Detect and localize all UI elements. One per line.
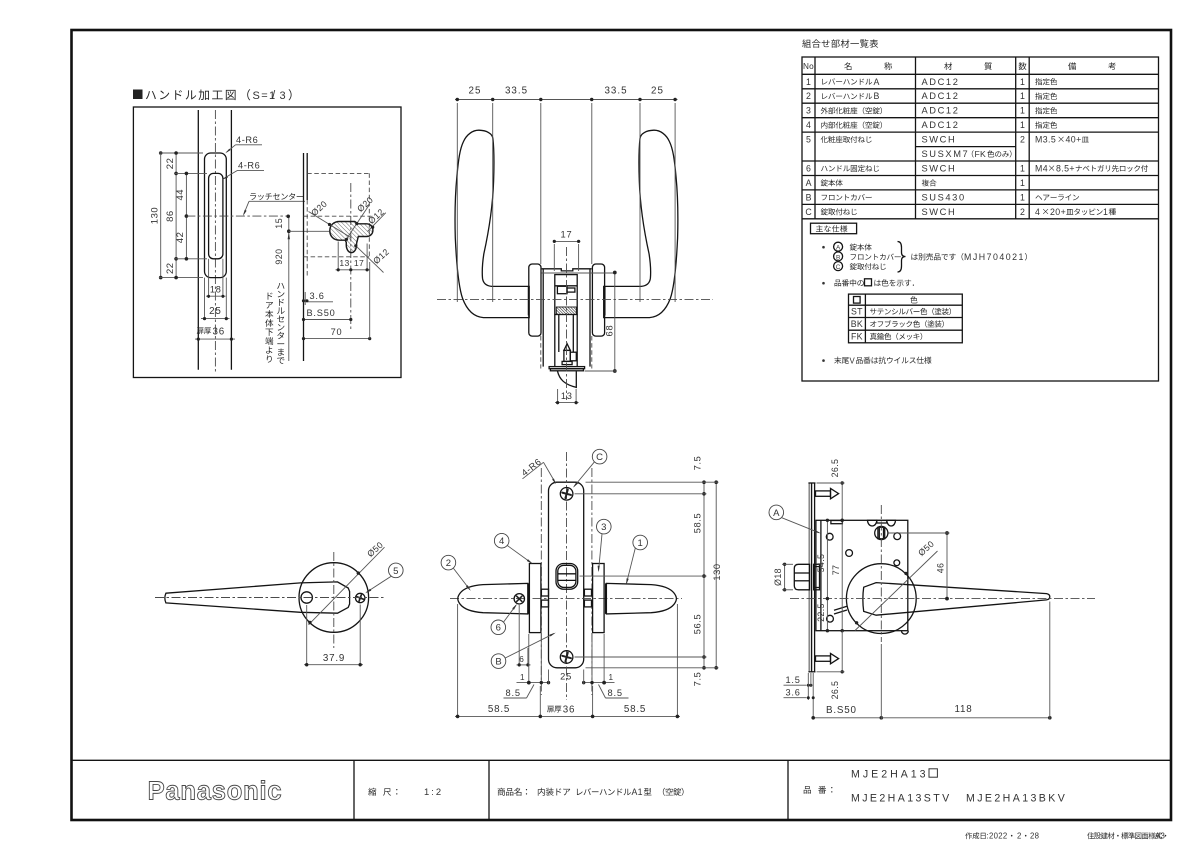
inner rose edge view (3)	[593, 564, 605, 633]
case rivets	[826, 533, 833, 540]
balloon C + leader	[592, 449, 607, 464]
dim 25 plate width	[548, 670, 550, 685]
svg-text:4: 4	[806, 120, 811, 130]
svg-text:1: 1	[520, 673, 525, 682]
latch tail in case	[814, 564, 820, 590]
svg-text:1: 1	[1020, 178, 1025, 188]
latch center label	[250, 193, 256, 199]
svg-text:MJE2HA13STV: MJE2HA13STV	[851, 793, 952, 805]
dim D18 latch	[784, 564, 786, 590]
dim 17 top view	[553, 240, 580, 242]
svg-text:4: 4	[1035, 207, 1040, 217]
hub posts left	[541, 589, 548, 596]
svg-text:SWCH: SWCH	[922, 163, 957, 173]
svg-text:118: 118	[954, 704, 972, 715]
svg-text:130: 130	[712, 563, 722, 580]
svg-text:36: 36	[213, 327, 226, 338]
svg-text:No: No	[803, 62, 814, 71]
brace	[898, 242, 906, 273]
hub reference line to 68 dim	[542, 272, 615, 274]
handle axis centerline	[450, 598, 682, 600]
extension lines right	[586, 481, 719, 483]
svg-text:17: 17	[561, 229, 573, 239]
svg-text:5: 5	[393, 566, 398, 577]
svg-text:Ø18: Ø18	[773, 568, 783, 586]
centerlines lock view	[790, 598, 1095, 600]
svg-text:1: 1	[1103, 207, 1108, 217]
svg-text:77: 77	[831, 565, 841, 576]
svg-text:A: A	[806, 178, 812, 188]
svg-text:25: 25	[651, 86, 664, 97]
svg-text:3.6: 3.6	[786, 688, 801, 698]
svg-text:33.5: 33.5	[604, 86, 627, 97]
svg-text:42: 42	[175, 232, 186, 244]
left rose plan view	[529, 264, 541, 336]
dim 22/86/22 line	[175, 153, 177, 278]
latch section hatch band	[556, 307, 576, 315]
svg-text:4: 4	[499, 536, 504, 547]
svg-text:58.5: 58.5	[488, 704, 510, 715]
svg-text:SWCH: SWCH	[922, 135, 957, 145]
svg-text:FK: FK	[851, 332, 863, 342]
balloon 4 + leader	[494, 533, 509, 548]
case sides below	[554, 315, 556, 367]
dim 54.5 / 22.5	[826, 520, 828, 630]
small dim row under roses	[528, 634, 530, 685]
svg-text:22.5: 22.5	[816, 603, 826, 622]
svg-text:MJE2HA13: MJE2HA13	[851, 769, 929, 781]
top view dimension line 25/33.5/33.5/25	[455, 99, 678, 101]
rose circle D50	[299, 563, 369, 633]
svg-text:6: 6	[519, 655, 524, 664]
door face lines (S=1/3 section)	[197, 110, 199, 370]
svg-text:8.5+: 8.5+	[1056, 163, 1075, 173]
dim 68 top view	[614, 273, 616, 372]
svg-text:2: 2	[1017, 832, 1021, 841]
svg-text:26.5: 26.5	[830, 459, 840, 478]
latch bolt in plate	[556, 564, 578, 590]
svg-text:B: B	[874, 91, 880, 101]
dim 77	[841, 520, 843, 630]
dim 130 right	[715, 482, 717, 668]
hub vertical centerline	[350, 183, 352, 330]
svg-text:1.5: 1.5	[786, 675, 801, 685]
front plate side strip	[808, 483, 810, 672]
lever handle B top view (right, mirrored)	[604, 130, 678, 317]
svg-text:22: 22	[165, 262, 176, 274]
mounting screw top side view	[816, 491, 831, 496]
scale field	[368, 788, 376, 796]
svg-text:25: 25	[560, 672, 572, 682]
hub cross-section hatched blob	[330, 222, 373, 253]
svg-text:18: 18	[210, 285, 222, 295]
bullet color note	[822, 282, 825, 285]
svg-text:V: V	[850, 356, 856, 365]
svg-text:7.5: 7.5	[693, 456, 703, 471]
svg-text:22: 22	[165, 158, 176, 170]
dim 130 left	[160, 155, 162, 276]
svg-text:ADC12: ADC12	[922, 91, 960, 101]
lock case plan	[555, 275, 577, 315]
svg-text:B: B	[495, 657, 501, 668]
door centerline	[214, 110, 216, 373]
svg-text:15: 15	[274, 218, 284, 229]
table horizontal lines	[802, 73, 1159, 75]
svg-text:ST: ST	[851, 307, 863, 317]
rose circle behind lever	[846, 564, 916, 634]
svg-text:58.5: 58.5	[624, 704, 646, 715]
parts table title	[802, 39, 811, 48]
plate inner hole 18x86	[209, 173, 223, 258]
D50 leader lock view	[855, 551, 938, 631]
vertical JP note: from door bottom to handle center	[268, 293, 273, 300]
latch center hidden extension	[304, 215, 372, 217]
svg-text:54.5: 54.5	[816, 554, 826, 573]
extension lines top view	[456, 103, 458, 302]
handle fixing screw plan	[564, 344, 570, 351]
svg-text:1: 1	[1020, 163, 1025, 173]
svg-text:ADC12: ADC12	[922, 120, 960, 130]
svg-text:37.9: 37.9	[323, 653, 345, 664]
color table	[849, 294, 963, 343]
svg-text:1: 1	[609, 673, 614, 682]
svg-text:25: 25	[209, 306, 222, 317]
dim 37.9	[306, 605, 308, 667]
side view centerlines	[155, 597, 385, 599]
svg-text:6: 6	[496, 623, 501, 634]
svg-text:MJE2HA13BKV: MJE2HA13BKV	[966, 793, 1067, 805]
svg-text:20+: 20+	[1050, 207, 1066, 217]
svg-text:44: 44	[175, 189, 186, 201]
svg-text:BK: BK	[851, 319, 863, 329]
dim 18 under plate	[208, 259, 210, 298]
svg-text:920: 920	[274, 248, 284, 264]
lever handle side view	[165, 582, 350, 613]
svg-text:130: 130	[150, 207, 161, 224]
svg-text:40+: 40+	[1066, 135, 1082, 145]
spindle hole on lever	[301, 592, 312, 603]
svg-text:C: C	[836, 264, 841, 271]
svg-text:2: 2	[1020, 207, 1025, 217]
svg-text:FK: FK	[975, 149, 987, 159]
spindle tab	[877, 520, 887, 523]
svg-text:1: 1	[1020, 77, 1025, 87]
mounting screw bottom side view	[816, 656, 831, 661]
lever handle B front (left bullet)	[458, 583, 528, 614]
set screw side view	[356, 593, 365, 602]
latch bolt plan curve	[558, 371, 577, 387]
dim 26.5 top	[841, 483, 843, 520]
dim 118 bottom	[881, 717, 1050, 719]
break marks	[834, 606, 847, 610]
svg-text:A3: A3	[1155, 832, 1165, 841]
bullet A/B/C note	[822, 246, 825, 249]
is sold separately note	[911, 254, 918, 260]
svg-text:B.S50: B.S50	[826, 705, 857, 716]
plate centerline vertical	[566, 452, 568, 700]
title block dividers	[353, 760, 355, 820]
lock mounting screw bottom	[560, 651, 573, 664]
svg-text:3: 3	[601, 522, 606, 533]
svg-text:28: 28	[1030, 832, 1039, 841]
svg-text:A: A	[773, 508, 780, 519]
svg-text:36: 36	[563, 704, 576, 715]
svg-text:2: 2	[446, 558, 451, 569]
svg-text:1: 1	[806, 77, 811, 87]
svg-text:68: 68	[604, 325, 614, 337]
hub posts right	[584, 589, 591, 596]
rose centerlines vertical	[540, 468, 542, 695]
handle machining diagram title	[133, 90, 143, 100]
svg-text:B.S50: B.S50	[307, 308, 336, 318]
case top slot tab left	[831, 521, 843, 524]
svg-text:A: A	[874, 77, 880, 87]
front plate 25x130 edge view	[549, 482, 584, 668]
table column lines	[814, 57, 816, 219]
dim 46	[946, 533, 948, 599]
footer drawing info	[965, 832, 972, 839]
svg-text:3: 3	[280, 90, 286, 102]
part number field	[804, 786, 811, 794]
svg-text:1: 1	[1020, 192, 1025, 202]
svg-text:2: 2	[1020, 135, 1025, 145]
top view centerlines	[437, 299, 713, 301]
latch bolt side view	[794, 564, 809, 590]
svg-text:3.6: 3.6	[310, 291, 325, 301]
svg-text:6: 6	[806, 163, 811, 173]
svg-text:46: 46	[936, 563, 946, 574]
balloon 6 + leader	[491, 620, 506, 635]
latch center line	[186, 215, 288, 217]
neck junction bands	[527, 287, 529, 316]
svg-text:1: 1	[1020, 120, 1025, 130]
D50 leader diagonal	[309, 547, 385, 625]
main specs label box	[811, 223, 857, 234]
right rose plan view	[592, 264, 604, 336]
balloon 1 + leader	[633, 535, 648, 550]
vertical dim 920/15 line	[288, 216, 290, 361]
title block top line	[72, 759, 1172, 761]
dim 13/17 under blob	[337, 242, 339, 272]
dim 25 under plate	[204, 278, 206, 320]
svg-text:70: 70	[331, 327, 343, 337]
svg-text:1: 1	[638, 538, 643, 549]
svg-text:3: 3	[806, 106, 811, 116]
front plate surface line 3.6	[306, 153, 308, 200]
outer rose edge view (4)	[529, 564, 541, 633]
svg-text:Panasonic: Panasonic	[148, 778, 283, 806]
svg-text:1: 1	[1020, 91, 1025, 101]
svg-text:13: 13	[339, 258, 349, 268]
handle center line to hub section	[289, 230, 330, 232]
dim 44/42 line	[185, 173, 187, 258]
machining diagram box	[133, 107, 401, 378]
svg-text:ADC12: ADC12	[922, 106, 960, 116]
svg-text:SUSXM7: SUSXM7	[922, 149, 970, 159]
front plate plan bands	[549, 367, 585, 369]
hidden plate outline dashed rect	[307, 172, 369, 174]
svg-text:2: 2	[806, 91, 811, 101]
svg-text:B: B	[806, 192, 812, 202]
bottom small dims 6/1/8.5 and 25	[518, 605, 520, 667]
balloon 2 + leader	[441, 555, 456, 570]
dim door thickness 36	[195, 338, 235, 340]
balloon B + leader	[491, 654, 506, 669]
svg-text:7.5: 7.5	[693, 672, 703, 687]
svg-text:8.5: 8.5	[506, 688, 521, 698]
lever handle A front (right bullet)	[606, 583, 677, 614]
spindle hub square hole	[875, 526, 888, 539]
svg-text:56.5: 56.5	[693, 614, 703, 635]
parts table outer box	[802, 57, 1159, 381]
svg-text:5: 5	[806, 135, 811, 145]
svg-text:A: A	[836, 245, 841, 252]
product name field	[498, 788, 505, 796]
handle set screw front	[514, 594, 524, 604]
bullet antivirus note	[822, 359, 825, 362]
svg-text:M3.5: M3.5	[1035, 135, 1056, 145]
lever handle A top view (left)	[455, 130, 529, 317]
lever handle side (pointing right)	[863, 583, 1050, 616]
svg-text:1: 1	[1020, 106, 1025, 116]
door edge line (right section)	[303, 153, 305, 361]
dim 26.5 bottom	[841, 631, 843, 672]
door face lines at mech	[542, 269, 544, 367]
balloon 5	[389, 563, 404, 578]
dim B.S50 bottom	[813, 717, 881, 719]
lock mechanism through door - top cap	[542, 269, 592, 271]
svg-text:25: 25	[469, 86, 482, 97]
svg-text:4-R6: 4-R6	[236, 135, 258, 145]
door face lines top view	[540, 103, 542, 264]
svg-text:86: 86	[165, 210, 176, 222]
right dims of front view: 7.5/58.5/56.5/7.5	[703, 482, 705, 668]
svg-text:26.5: 26.5	[830, 681, 840, 700]
balloon 3 + leader	[597, 519, 612, 534]
svg-text:C: C	[596, 452, 603, 463]
svg-text:4-R6: 4-R6	[238, 160, 260, 170]
bottom dim row 58.5/36/58.5	[457, 604, 459, 718]
svg-text:SUS430: SUS430	[922, 192, 966, 202]
dim 13 bottom	[557, 389, 559, 404]
svg-text:A1: A1	[632, 787, 643, 797]
svg-text:33.5: 33.5	[505, 86, 528, 97]
svg-text:8.5: 8.5	[608, 688, 623, 698]
svg-text:MJH704021: MJH704021	[964, 252, 1025, 262]
svg-text:1:2: 1:2	[424, 786, 443, 797]
svg-text:ADC12: ADC12	[922, 77, 960, 87]
case top notches	[868, 520, 877, 526]
svg-text::2022: :2022	[987, 832, 1008, 841]
balloon A + leader	[769, 505, 784, 520]
lock case	[816, 520, 908, 630]
svg-text:C: C	[805, 207, 812, 217]
escutcheon plate outline 25x130	[205, 153, 227, 278]
svg-text:58.5: 58.5	[693, 513, 703, 534]
svg-text:SWCH: SWCH	[922, 207, 957, 217]
svg-text:B: B	[836, 254, 840, 261]
svg-text:M4: M4	[1035, 163, 1048, 173]
svg-text:17: 17	[354, 258, 364, 268]
lock mounting screw top	[560, 488, 573, 501]
